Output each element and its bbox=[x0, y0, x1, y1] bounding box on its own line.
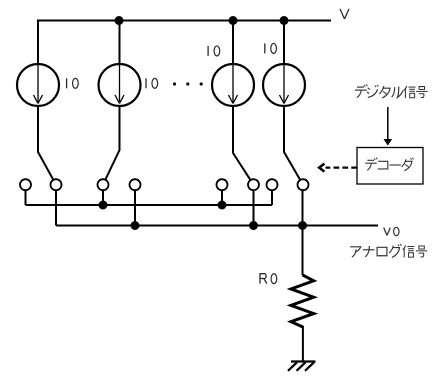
wire drop to current source 2 bbox=[103, 21, 120, 185]
wire bus 2 output V0 bbox=[56, 225, 378, 227]
switch contact 1b bbox=[51, 179, 62, 190]
resistor R0 bbox=[291, 275, 314, 327]
wire resistor to ground bbox=[302, 326, 304, 362]
wire stub contact 3b bbox=[253, 185, 255, 226]
wire drop to current source 4 bbox=[284, 21, 303, 185]
switch contact 3b bbox=[248, 179, 259, 190]
current source I0 #2 bbox=[99, 64, 141, 106]
label I0 source3 bbox=[208, 46, 220, 56]
node junction bus1 left bbox=[99, 201, 108, 210]
wire stub contact 1b bbox=[55, 185, 57, 226]
wire stub contact 1a bbox=[25, 185, 27, 205]
label analog signal アナログ信号 bbox=[350, 244, 427, 257]
wire stub contact 2a bbox=[102, 185, 104, 205]
label digital signal デジタル信号 bbox=[355, 84, 428, 98]
current source I0 #4 bbox=[263, 64, 305, 106]
ground bbox=[288, 362, 316, 371]
switch contact 4a bbox=[267, 179, 278, 190]
current source I0 #3 bbox=[212, 64, 254, 106]
wire bus 1 bbox=[26, 204, 273, 206]
arrow decoder to switches (dashed) bbox=[326, 166, 358, 168]
switch contact 1a bbox=[20, 179, 31, 190]
label V bbox=[340, 9, 349, 19]
label I0 source2 bbox=[146, 78, 158, 88]
node junction bus2 output bbox=[298, 221, 307, 230]
dots ellipsis between sources bbox=[173, 82, 176, 85]
wire drop to current source 1 bbox=[38, 20, 56, 185]
node junction bus1 right bbox=[218, 201, 227, 210]
switch contact 4b bbox=[298, 179, 309, 190]
label R0 bbox=[260, 274, 277, 284]
label V0 bbox=[384, 227, 399, 235]
wire stub contact 2b bbox=[134, 185, 136, 226]
switch contact 2b bbox=[130, 179, 141, 190]
decoder box U1 bbox=[357, 148, 423, 185]
node junction bus2 left bbox=[131, 221, 140, 230]
arrow digital input bbox=[387, 107, 389, 139]
node junction bus2 mid bbox=[249, 221, 258, 230]
label decoder デコーダ bbox=[365, 158, 413, 171]
switch contact 2a bbox=[98, 179, 109, 190]
wire stub contact 4b to resistor bbox=[302, 185, 304, 275]
wire drop to current source 3 bbox=[233, 21, 254, 185]
switch contact 3a bbox=[217, 179, 228, 190]
node junction top 2 bbox=[115, 16, 124, 25]
current source I0 #1 bbox=[17, 64, 59, 106]
node junction top 3 bbox=[229, 16, 238, 25]
node junction top 4 bbox=[280, 16, 289, 25]
label I0 source4 bbox=[265, 43, 277, 53]
wire top rail V bbox=[37, 20, 331, 22]
wire stub contact 4a bbox=[271, 185, 273, 205]
label I0 source1 bbox=[67, 78, 79, 88]
wire stub contact 3a bbox=[221, 185, 223, 205]
